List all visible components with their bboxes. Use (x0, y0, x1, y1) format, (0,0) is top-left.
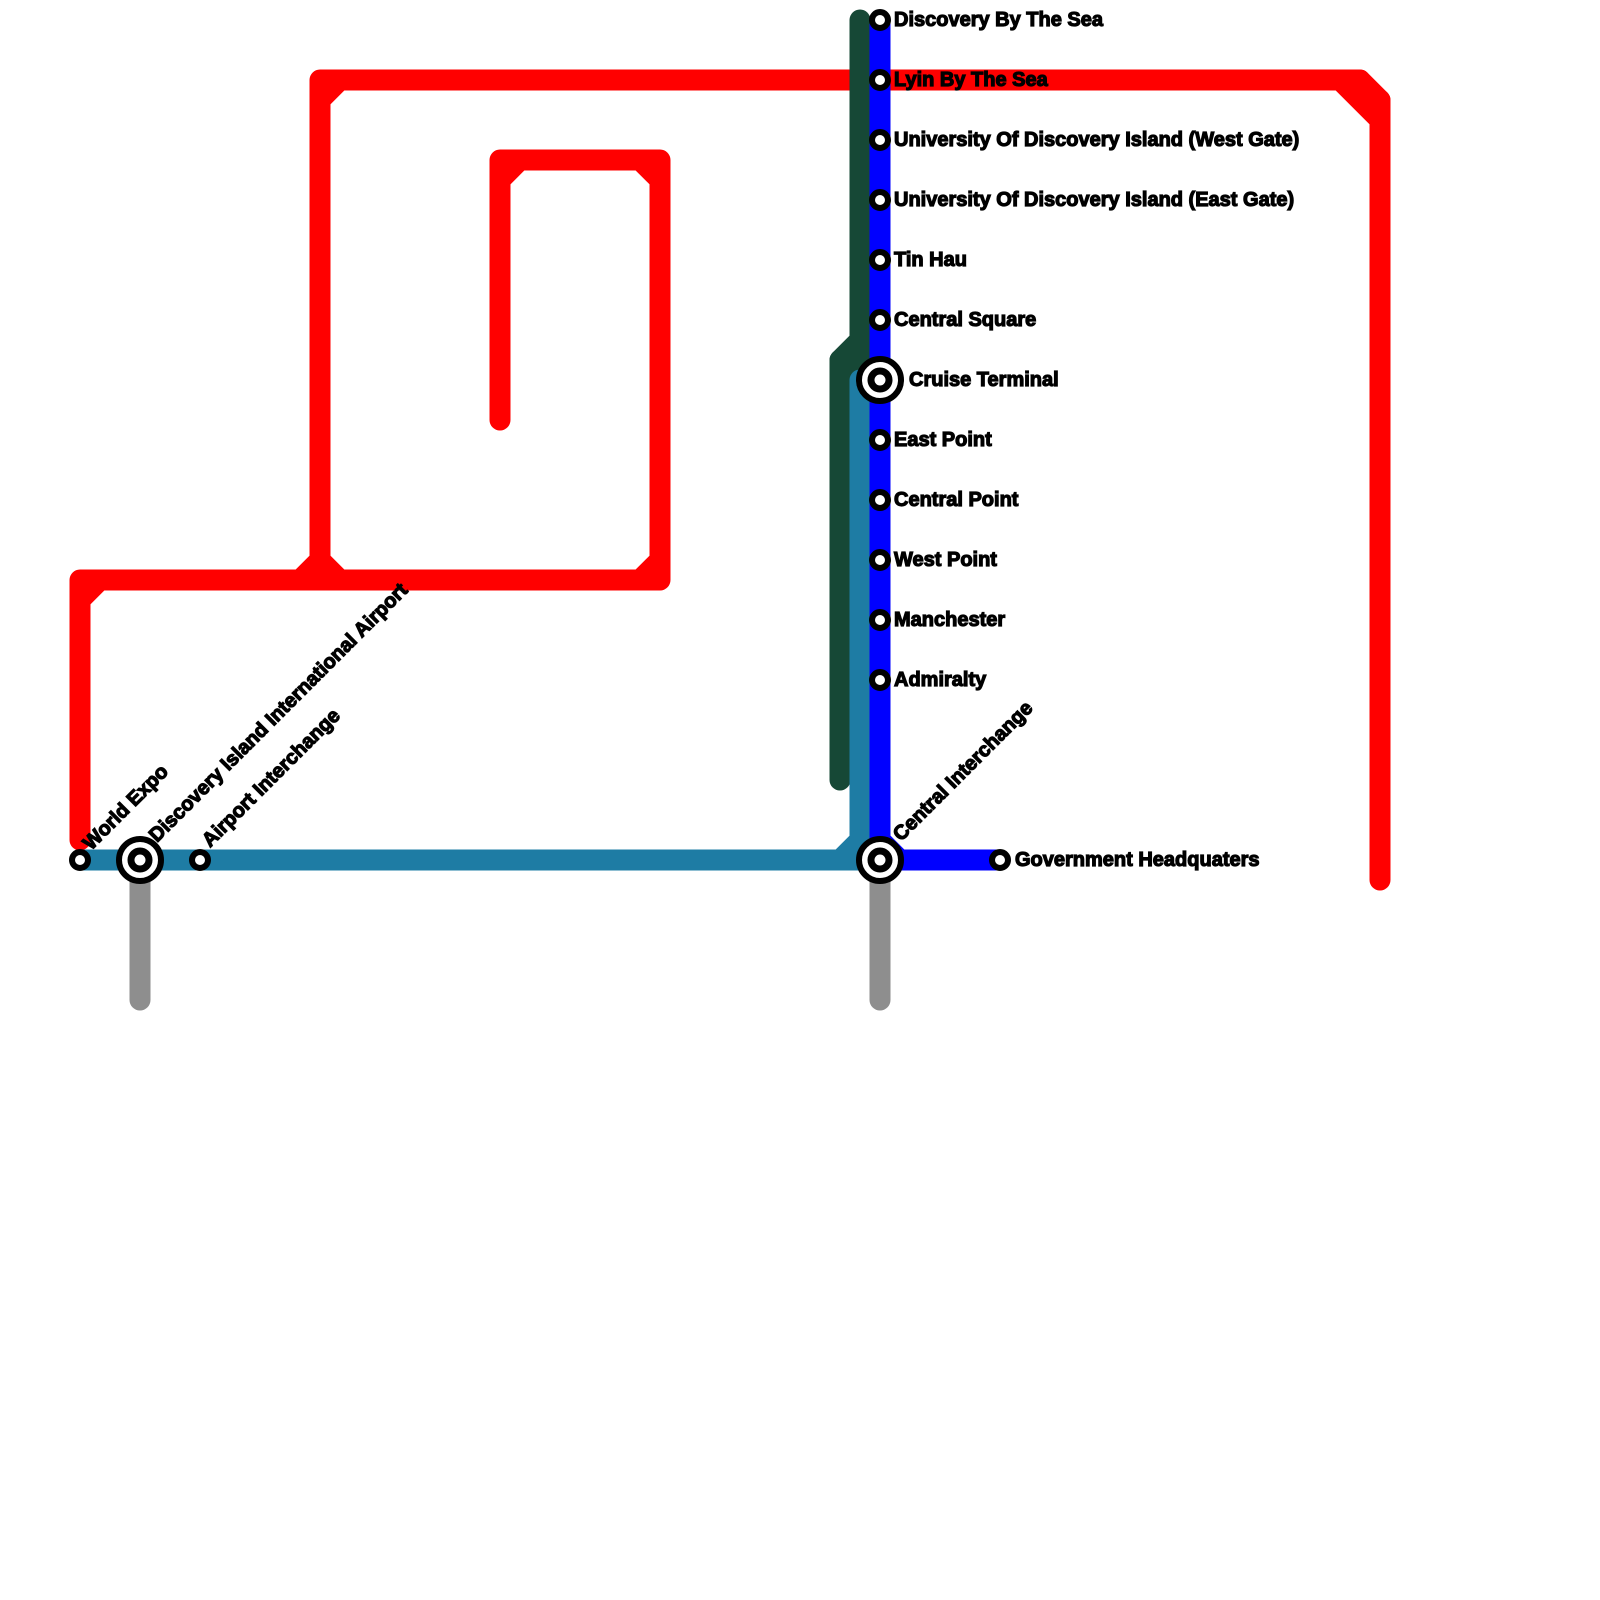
svg-text:East Point: East Point (894, 429, 992, 451)
svg-text:Central Point: Central Point (894, 489, 1019, 511)
svg-text:Manchester: Manchester (894, 609, 1005, 631)
svg-text:Tin Hau: Tin Hau (894, 249, 967, 271)
svg-text:Discovery By The Sea: Discovery By The Sea (894, 9, 1104, 31)
svg-text:University Of Discovery Island: University Of Discovery Island (West Gat… (894, 129, 1299, 151)
svg-text:Central Square: Central Square (894, 309, 1036, 331)
svg-text:Lyin By The Sea: Lyin By The Sea (894, 69, 1049, 91)
svg-text:Admiralty: Admiralty (894, 669, 987, 691)
svg-text:Government Headquaters: Government Headquaters (1015, 849, 1260, 871)
svg-text:Cruise Terminal: Cruise Terminal (909, 369, 1059, 391)
svg-text:University Of Discovery Island: University Of Discovery Island (East Gat… (894, 189, 1294, 211)
svg-text:West Point: West Point (894, 549, 997, 571)
